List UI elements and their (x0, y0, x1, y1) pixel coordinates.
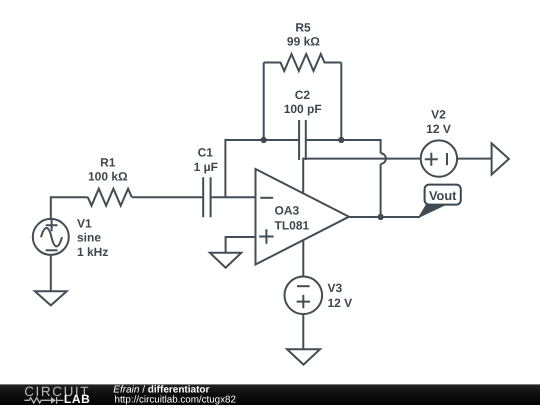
wire R1 to C1 (132, 196, 203, 198)
V2 plus sign (425, 153, 438, 166)
svg-text:C2: C2 (295, 88, 311, 102)
footer bar (0, 384, 540, 405)
V1 plus sign (46, 219, 58, 231)
wire V2 to output flag (457, 158, 492, 160)
wire feedback right corner down (341, 140, 380, 153)
svg-text:R1: R1 (100, 155, 116, 169)
wire output (349, 216, 420, 218)
wire op-amp V- pin (302, 241, 304, 277)
svg-text:C1: C1 (198, 146, 214, 160)
wire hop over supply wire (381, 153, 386, 164)
V2 minus sign (rotated) (446, 153, 448, 165)
V3 plus sign (297, 295, 310, 308)
svg-text:V3: V3 (328, 281, 343, 295)
svg-text:TL081: TL081 (275, 219, 310, 233)
wire to C2 left (264, 139, 299, 141)
svg-text:Vout: Vout (429, 188, 457, 203)
svg-text:sine: sine (77, 231, 101, 245)
wire node A branch up to feedback (225, 140, 263, 197)
svg-text:99 kΩ: 99 kΩ (287, 35, 320, 49)
svg-text:12 V: 12 V (328, 296, 353, 310)
svg-text:http://circuitlab.com/ctugx82: http://circuitlab.com/ctugx82 (115, 395, 236, 405)
Vout tag box (425, 185, 461, 205)
output flag arrow (492, 143, 509, 174)
voltage source V3 (285, 277, 323, 315)
wire non-inverting input to ground (226, 237, 256, 253)
op-amp plus sign (259, 229, 273, 243)
op-amp OA3 (256, 169, 350, 265)
svg-text:1 µF: 1 µF (194, 160, 218, 174)
wire down to output (380, 164, 382, 217)
svg-text:100 kΩ: 100 kΩ (88, 170, 128, 184)
capacitor C1 (203, 177, 210, 217)
logo resistor squiggle (24, 398, 51, 403)
svg-text:V2: V2 (431, 108, 446, 122)
resistor R1 (88, 189, 132, 206)
svg-text:OA3: OA3 (275, 204, 300, 218)
svg-text:1 kHz: 1 kHz (77, 245, 108, 259)
wire R5 left leg (263, 63, 265, 141)
wire C1 to op-amp inverting input (211, 196, 256, 198)
junction node feedback left (261, 137, 267, 143)
ground (V3) (287, 349, 320, 364)
op-amp minus sign (260, 197, 273, 199)
svg-text:LAB: LAB (64, 392, 90, 405)
wire V1 to ground (50, 255, 52, 291)
V1 sine symbol (41, 228, 62, 246)
V1 minus sign (46, 249, 58, 251)
svg-text:12 V: 12 V (426, 122, 451, 136)
logo diode symbol (51, 397, 56, 404)
wire op-amp V+ pin to V2 (303, 159, 421, 194)
wire V1 top to R1 (51, 197, 88, 219)
wire R5 right leg (340, 63, 342, 141)
wire V3 to ground (302, 314, 304, 349)
Vout tag pointer (418, 204, 447, 219)
resistor R5 (264, 54, 342, 71)
junction node output (378, 214, 384, 220)
svg-text:V1: V1 (77, 216, 92, 230)
capacitor C2 (299, 120, 306, 160)
V3 minus sign (297, 285, 310, 287)
ground (V1) (35, 291, 67, 305)
wire C2 right to junction (306, 139, 342, 141)
voltage source V2 (421, 140, 457, 176)
svg-text:R5: R5 (295, 21, 311, 35)
svg-text:100 pF: 100 pF (284, 102, 322, 116)
junction node feedback right (338, 137, 344, 143)
voltage source V1 (33, 219, 69, 255)
ground (op-amp +) (210, 253, 241, 268)
